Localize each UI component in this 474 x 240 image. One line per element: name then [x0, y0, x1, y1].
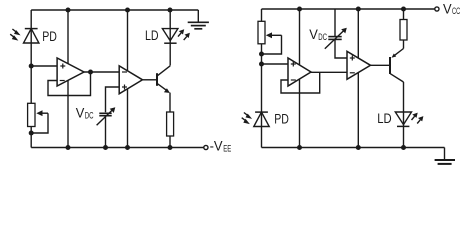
variable source VDC (left) — [97, 107, 116, 125]
wire U3 feedback loop — [281, 72, 320, 93]
potentiometer R1 (left) — [28, 103, 48, 133]
wire bottom rail left circuit — [31, 147, 203, 149]
svg-text:-V: -V — [210, 139, 223, 154]
resistor R2 (left emitter resistor) — [167, 112, 174, 136]
wire U2 negative supply — [127, 89, 129, 148]
wire R4 to top rail — [403, 9, 405, 20]
wire to op-amp U3 + input — [262, 63, 289, 65]
terminal VCC — [435, 7, 439, 11]
wire U3 output to U4 inverting input — [311, 71, 347, 73]
wire VDC to U4 + input — [335, 40, 347, 58]
wire PD column (top rail to potentiometer) — [30, 10, 32, 103]
wire U4 positive supply — [357, 9, 359, 58]
wire PD junction to op-amp U1 + input — [31, 65, 57, 67]
op-amp U3 (right) — [288, 58, 311, 86]
transistor Q2 (right, PNP) — [390, 49, 404, 83]
wire U1 output to U2 inverting input — [84, 71, 119, 73]
wire pot to PD column — [261, 44, 263, 148]
svg-text:CC: CC — [452, 6, 460, 16]
svg-text:V: V — [309, 27, 318, 42]
resistor R4 (right, top) — [400, 20, 407, 41]
wire U1 positive supply — [67, 10, 69, 64]
potentiometer R3 (right) — [258, 9, 282, 54]
wire U2 + input to VDC source — [106, 87, 120, 112]
op-amp U4 (right) — [347, 51, 371, 79]
wire Q1 emitter to resistor R2 — [169, 93, 171, 112]
node VDC on bottom rail — [103, 145, 108, 150]
wire U2 positive supply — [127, 10, 129, 71]
node pot wiper junction — [29, 131, 34, 136]
laser diode LD (right) — [395, 112, 423, 126]
svg-text:PD: PD — [42, 29, 57, 44]
node U4 supply on top rail — [356, 7, 361, 12]
node R2 on bottom rail — [168, 145, 173, 150]
node U3 supply on top rail — [297, 7, 302, 12]
wire U2 output to Q1 base — [143, 79, 158, 81]
node U2 negative supply on bottom rail — [125, 145, 130, 150]
wire U4 negative supply — [357, 73, 359, 148]
variable source VDC (right) — [325, 28, 347, 49]
photodiode PD (left) — [10, 29, 39, 43]
node U2 supply on top rail — [125, 8, 130, 13]
node LD on top rail — [168, 8, 173, 13]
wire R2 to bottom rail — [169, 136, 171, 148]
node LD on bottom rail — [401, 145, 406, 150]
wire Q2 emitter to resistor R4 — [403, 40, 405, 49]
wire U1 feedback loop — [48, 72, 91, 96]
svg-text:EE: EE — [223, 143, 231, 153]
laser diode LD (left) — [162, 29, 190, 44]
terminal -VEE — [204, 145, 208, 149]
wire ground stem left — [197, 10, 199, 22]
wire Q2 collector to LD (right) — [403, 82, 405, 148]
wire top rail right circuit — [262, 8, 435, 10]
svg-text:V: V — [76, 106, 85, 121]
node U1 supply on top rail — [66, 8, 71, 13]
wire U3 positive supply — [299, 9, 301, 65]
svg-text:V: V — [443, 1, 452, 16]
node U3 negative supply on bottom rail — [297, 145, 302, 150]
svg-text:LD: LD — [377, 111, 392, 126]
wire top rail to VDC (right) — [334, 9, 336, 36]
node U1 output — [88, 70, 93, 75]
wire VDC to bottom rail — [105, 117, 107, 148]
wire ground stem right — [444, 148, 446, 160]
node + input branch (right) — [259, 62, 264, 67]
wire bottom rail right circuit — [262, 147, 445, 149]
wire U3 negative supply — [299, 79, 301, 148]
svg-text:DC: DC — [85, 111, 94, 121]
node R4 on top rail — [401, 7, 406, 12]
wire pot to bottom rail — [30, 127, 32, 148]
wire top rail to LD — [169, 10, 171, 66]
op-amp U1 (left) — [57, 58, 84, 86]
svg-text:DC: DC — [318, 32, 327, 42]
node U1 negative supply on bottom rail — [66, 145, 71, 150]
ground (left circuit, top right) — [188, 22, 209, 29]
svg-text:LD: LD — [145, 28, 159, 43]
op-amp U2 (left) — [119, 66, 142, 94]
wire U4 output to Q2 base — [371, 64, 391, 66]
wire top rail left circuit — [31, 9, 198, 11]
node U4 negative supply on bottom rail — [356, 145, 361, 150]
node pot wiper junction (right) — [259, 52, 264, 57]
transistor Q1 (left, NPN) — [157, 66, 170, 93]
svg-text:PD: PD — [274, 111, 289, 126]
node PD junction (left) — [29, 64, 34, 69]
wire U1 negative supply — [67, 80, 69, 147]
photodiode PD (right) — [242, 112, 270, 126]
ground (right circuit, bottom right) — [435, 160, 455, 164]
